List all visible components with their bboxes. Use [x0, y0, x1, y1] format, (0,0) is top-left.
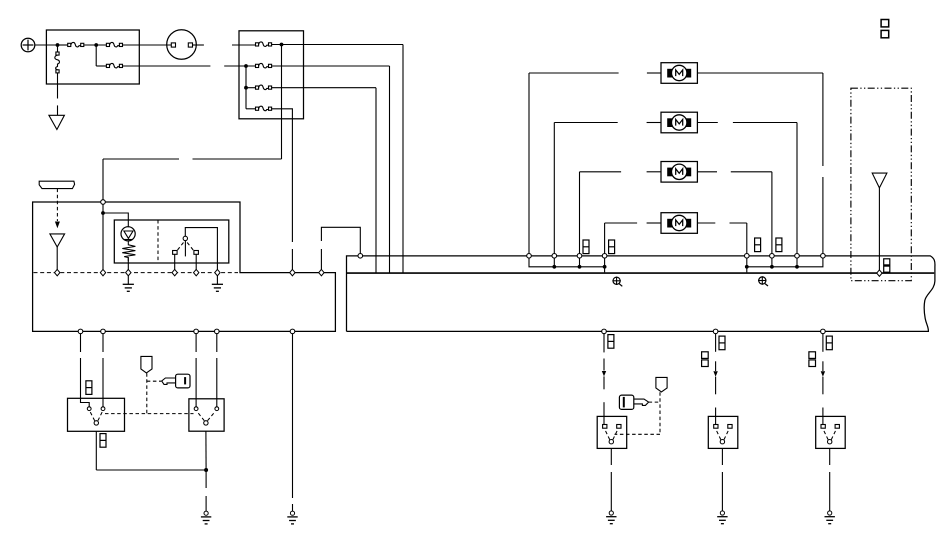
wire from top pin: [102, 204, 104, 270]
key symbol (door key): [619, 395, 648, 409]
wire switch S4 feed: [715, 334, 717, 352]
lock pentagon (driver door): [656, 377, 667, 392]
wire switch S5 feed: [822, 334, 824, 352]
wire link triangle to pin: [56, 247, 58, 270]
ground G5: [825, 511, 835, 524]
wire between fuses: [84, 44, 106, 46]
drive link triangle: [50, 234, 65, 247]
connector on M4 right wire: [755, 238, 761, 252]
switch pole: [183, 236, 187, 240]
wire across to ground junction: [96, 469, 206, 471]
wire pin1 down: [80, 334, 82, 352]
motor M3: [661, 162, 697, 183]
ground arrow (open triangle): [49, 115, 65, 129]
wire row4 to right then down: [272, 109, 293, 242]
ground under LED: [127, 276, 129, 284]
wire pin2 down: [102, 334, 104, 352]
ground G3: [606, 511, 616, 524]
wire row4 lower segment to master switch diamond: [291, 249, 293, 270]
throw dashes S4: [716, 430, 721, 439]
wire M3 right: [697, 171, 717, 173]
mechanical link (dashed) from glass: [56, 189, 58, 221]
ground under switch: [216, 276, 218, 284]
wire S3 pole to ground: [610, 448, 612, 465]
window switch box (passenger rear R): [816, 416, 846, 448]
contact S5b: [835, 425, 839, 429]
contact S3a: [603, 425, 607, 429]
wire row3 down to junction connector: [375, 88, 377, 273]
branch to fuse 3: [95, 45, 97, 66]
wire pole down: [95, 431, 97, 470]
wire resistor to pin: [127, 257, 129, 269]
key linkage dashes: [649, 401, 660, 403]
fuse F6 row3: [256, 85, 272, 90]
wire row1 exits right: [272, 44, 403, 46]
key cylinder switch box (driver door): [597, 416, 627, 448]
contact S3b: [617, 425, 621, 429]
motor M4: [661, 213, 697, 234]
wire row3 exits right: [272, 87, 376, 89]
node: junction after F1: [94, 43, 98, 47]
wire resumes into fuse box 2: [232, 44, 255, 46]
ground point marker G left: [612, 277, 622, 287]
fuse F5 row2: [256, 63, 272, 68]
contact P1: [194, 407, 198, 411]
wire resumes to fuse box 2 row2: [224, 65, 255, 67]
wire contact UP to pin: [174, 254, 176, 269]
connector boundary (dashed): [34, 272, 239, 274]
pin diamond H (bus feed): [319, 269, 324, 275]
connector pair S4: [702, 352, 709, 359]
throw dashes S5: [824, 430, 829, 439]
contact UP: [173, 251, 178, 255]
window glass symbol: [39, 181, 74, 188]
wire junction to lamp: [103, 213, 128, 227]
node: junction battery feed: [56, 43, 60, 47]
fuse F4 row1: [256, 42, 272, 47]
mechanical linkage (dashed): [105, 413, 194, 415]
power window motors: [661, 63, 697, 234]
switch throw dashes: [178, 243, 184, 251]
fuse F3: [106, 63, 122, 68]
wire row2 to row4 vertical: [245, 66, 247, 109]
wire bus feed up: [320, 249, 322, 270]
left sub-bus: [529, 258, 605, 267]
pin diamond A: [55, 269, 60, 275]
lock pentagon: [141, 356, 152, 373]
connector on wire pin1: [86, 381, 92, 395]
wire M4 right: [697, 222, 715, 224]
wire M3 left: [580, 171, 622, 173]
key link vertical (dashed): [146, 373, 148, 413]
wire row1 down to junction connector: [402, 45, 404, 273]
switch arm: [184, 241, 186, 257]
fusible link (vertical): [55, 45, 60, 99]
ground point marker G right: [758, 276, 768, 286]
node: ground junction: [204, 468, 208, 472]
master switch: feed wire over: [185, 228, 217, 270]
switch pole (driver lock): [94, 421, 98, 425]
pin diamond D: [172, 269, 177, 275]
wire horizontal resumes after connector: [103, 158, 179, 160]
connector squares top right corner: [881, 20, 889, 27]
pin diamond F: [215, 269, 220, 275]
node: lamp feed junction: [101, 211, 105, 215]
power window master switch unit box: [33, 202, 336, 331]
pole S4: [720, 440, 724, 444]
wire contact DOWN to pin: [195, 254, 197, 269]
node: junction row3 feed: [244, 86, 248, 90]
connector below pin S5: [826, 336, 832, 350]
wire horizontal to master switch: [193, 158, 282, 160]
fuse F7 row4: [256, 106, 272, 111]
fuse box 1 (under-hood fuse/relay box): [46, 30, 139, 84]
pole S3: [609, 440, 613, 444]
wire S5 pole to ground: [829, 448, 831, 465]
wire pin5 down to ground: [292, 334, 294, 498]
ground G4: [717, 511, 727, 524]
antenna triangle (option feed): [872, 173, 887, 188]
wire battery to fuse box: [35, 44, 58, 46]
contact S4b: [728, 425, 732, 429]
wire row2 exits right: [272, 65, 390, 67]
pin: bus feed: [358, 254, 363, 259]
wire F3 exits right: [123, 65, 211, 67]
connector below box: [100, 434, 106, 448]
contact DOWN: [194, 251, 199, 255]
door lock knob switch box (driver): [68, 398, 125, 431]
inner divider (dashed): [157, 220, 159, 263]
contact L2: [101, 407, 105, 411]
pole S5: [828, 440, 832, 444]
throw dashes: [90, 412, 95, 421]
fuse F2: [106, 42, 122, 47]
fuse F1: [68, 42, 84, 47]
switch inner box: [114, 220, 229, 263]
window switch box (passenger rear L): [708, 416, 738, 448]
pin diamond G (row4 feed): [290, 269, 295, 275]
arrowhead: [55, 222, 60, 229]
wire pin3 down: [195, 334, 197, 352]
wire switch S3 feed: [603, 334, 605, 353]
pin diamond B: [100, 269, 105, 275]
wire down to master switch pin: [102, 159, 104, 200]
wire pin4 down: [216, 334, 218, 352]
contact L1: [87, 407, 91, 411]
fuse box 2 (dash fuse box): [239, 31, 304, 119]
harness bus wire: [347, 272, 935, 274]
wire from F4 node down: [281, 45, 283, 160]
wire row4 feed: [246, 108, 255, 110]
wire row3 feed: [246, 87, 255, 89]
door lock knob switch box (passenger): [189, 399, 224, 431]
pins on bus bottom: [602, 329, 607, 334]
pin diamond E: [194, 269, 199, 275]
wire S4 pole to ground: [721, 448, 723, 465]
throw dashes: [197, 412, 204, 421]
ground G1: [201, 511, 211, 524]
connector below pin S4: [719, 336, 725, 350]
dash-dot option box: [851, 88, 911, 281]
wire M2 left: [554, 122, 617, 124]
battery positive terminal B+: [21, 38, 35, 52]
pin diamond option: [877, 270, 882, 276]
ground G2: [287, 511, 297, 524]
node: junction row2 feed: [244, 64, 248, 68]
contact S5a: [821, 425, 825, 429]
connector pair S5: [809, 352, 816, 359]
ignition switch: [167, 30, 197, 60]
resistor (coil): [122, 241, 135, 261]
key link horizontal (dashed): [147, 380, 162, 382]
wire M1 right: [697, 72, 823, 74]
switch pole (passenger): [204, 421, 208, 425]
right motor group pins: [745, 254, 750, 259]
contact P2: [215, 407, 219, 411]
connector on M3 right wire: [776, 238, 782, 252]
right sub-bus: [747, 258, 823, 267]
left motor group pins: [527, 254, 532, 259]
throw dashes S3: [605, 430, 610, 439]
wire M4 left: [605, 222, 638, 224]
wire pole down through junction: [205, 431, 207, 470]
node: junction after F4: [280, 43, 284, 47]
wire jog inside box: [81, 398, 90, 406]
wire F2 to ignition switch: [123, 44, 172, 46]
wire row2 down to junction connector: [389, 66, 391, 273]
wire M2 right: [697, 122, 717, 124]
wire ignition switch output: [193, 44, 204, 46]
connector squares option: [884, 259, 890, 265]
connector on M4 left wire: [609, 240, 615, 254]
wire to fuse 1: [58, 44, 68, 46]
wire M1 left: [529, 72, 619, 74]
motor M2: [661, 112, 697, 133]
pin diamond C: [126, 269, 131, 275]
illumination LED: [121, 227, 135, 241]
wire segment to ground arrow: [57, 105, 59, 115]
pin circles on box bottom: [78, 329, 83, 334]
connector on M3 left wire: [583, 240, 589, 254]
contact S4a: [714, 425, 718, 429]
pin circle on box top: [101, 200, 106, 205]
wire option down: [878, 188, 880, 270]
motor M1: [661, 63, 697, 84]
junction harness box (right): [347, 256, 935, 332]
key symbol (driver): [162, 374, 190, 388]
connector below pin S3: [608, 335, 614, 349]
